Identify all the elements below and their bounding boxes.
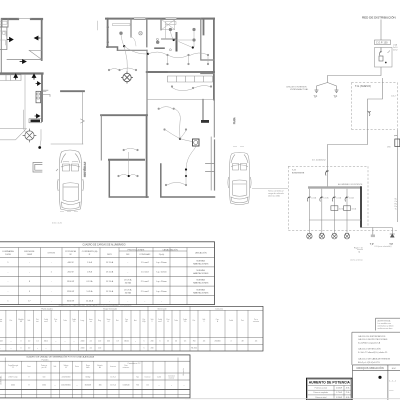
diff switch c4 bbox=[344, 206, 351, 211]
TP bottom horizontal bbox=[361, 227, 392, 229]
svg-text:h.p.r 20mm: h.p.r 20mm bbox=[156, 261, 167, 264]
meter box bbox=[375, 48, 393, 68]
svg-text:CORRIENTE (A): CORRIENTE (A) bbox=[82, 250, 98, 253]
porch post line bbox=[82, 92, 84, 144]
black hatch rect bbox=[201, 120, 209, 123]
outlet left wall 2 bbox=[107, 41, 109, 43]
circuit drop 4 bbox=[346, 189, 348, 234]
lamp c2 bbox=[319, 233, 324, 239]
svg-text:1x10A: 1x10A bbox=[336, 197, 342, 200]
arrow symbol 2 bbox=[35, 36, 41, 40]
circuit drop 2 bbox=[321, 189, 323, 234]
room5 outlets bbox=[123, 149, 125, 151]
svg-text:Generación: Generación bbox=[157, 308, 166, 310]
svg-text:Cable: Cable bbox=[158, 319, 162, 321]
svg-text:2.0: 2.0 bbox=[28, 348, 30, 350]
svg-text:CALCULO DE CAIDA DE TENSION: CALCULO DE CAIDA DE TENSION bbox=[358, 357, 391, 360]
TP branch split bbox=[317, 83, 337, 91]
svg-text:14.46 A: 14.46 A bbox=[86, 299, 94, 302]
svg-text:2X 25 A: 2X 25 A bbox=[124, 288, 132, 291]
wall mid horizontal A bbox=[0, 72, 43, 74]
bath walls bbox=[155, 47, 164, 49]
porch wall right of plan A bbox=[61, 90, 84, 92]
svg-text:AUMENTO DE POTENCIA: AUMENTO DE POTENCIA bbox=[309, 381, 351, 385]
seats bbox=[63, 161, 79, 171]
svg-text:electrico 16A: electrico 16A bbox=[268, 194, 280, 197]
feed line 1 bbox=[380, 20, 382, 41]
circuit drop 1 bbox=[308, 189, 310, 234]
svg-text:D.I. 2x16mm2: D.I. 2x16mm2 bbox=[312, 160, 326, 162]
wall top B bbox=[106, 18, 214, 20]
calculos box bbox=[352, 332, 400, 365]
svg-text:Cable: Cable bbox=[44, 319, 48, 321]
living outlets row1 bbox=[108, 69, 110, 71]
big room ceiling outlets bbox=[166, 54, 168, 56]
svg-text:pico W: pico W bbox=[42, 367, 47, 369]
wire r1 bbox=[121, 35, 124, 46]
svg-text:Dias: Dias bbox=[124, 365, 127, 367]
svg-text:ALUMBRADO EXISTENTE: ALUMBRADO EXISTENTE bbox=[338, 183, 363, 186]
svg-text:4: 4 bbox=[231, 341, 232, 343]
door arc room1 bbox=[131, 37, 136, 46]
lower-left block wall bbox=[101, 114, 147, 116]
svg-text:1x10A: 1x10A bbox=[349, 197, 355, 200]
corridor wall bbox=[118, 49, 148, 51]
svg-text:T-G: T-G bbox=[292, 170, 296, 172]
right wall x203 below bbox=[202, 100, 204, 122]
svg-text:4040: 4040 bbox=[11, 385, 15, 387]
svg-text:0.3: 0.3 bbox=[116, 341, 118, 343]
svg-text:0: 0 bbox=[21, 341, 22, 343]
lamp r3 bbox=[156, 41, 159, 44]
room6 outlets bbox=[117, 175, 119, 177]
svg-text:1X 16 A: 1X 16 A bbox=[106, 290, 114, 293]
right wall B bbox=[213, 19, 215, 100]
svg-text:Carga: Carga bbox=[0, 319, 2, 321]
junction room7b bbox=[185, 168, 187, 170]
car2 windshield bbox=[231, 155, 248, 167]
TP drop left bbox=[372, 228, 374, 235]
svg-text:25: 25 bbox=[167, 341, 169, 343]
svg-text:mm2: mm2 bbox=[44, 321, 48, 323]
table3 verticals bbox=[5, 358, 178, 398]
breaker on feed bbox=[368, 111, 371, 116]
svg-text:1X 16 A: 1X 16 A bbox=[106, 280, 114, 283]
svg-text:Grupo Generador: Grupo Generador bbox=[103, 308, 117, 310]
svg-text:Tipo: Tipo bbox=[136, 377, 139, 379]
svg-text:LUMINARIA: LUMINARIA bbox=[2, 250, 14, 253]
svg-text:48: 48 bbox=[242, 341, 244, 343]
svg-text:30x8x08: 30x8x08 bbox=[85, 385, 91, 387]
feed in dashed box bbox=[328, 78, 383, 187]
svg-text:4.1: 4.1 bbox=[36, 341, 38, 343]
svg-text:CANALIZACIÓN: CANALIZACIÓN bbox=[162, 248, 178, 251]
junction living bbox=[147, 53, 149, 55]
svg-text:verificarse en obra.: verificarse en obra. bbox=[378, 328, 394, 330]
svg-text:230: 230 bbox=[151, 341, 154, 343]
mid-left room wall h y159.5 bbox=[109, 159, 144, 161]
living hex lamp bbox=[121, 72, 133, 84]
wall right section v3 bbox=[160, 19, 162, 30]
rear box bbox=[63, 183, 79, 202]
meter line right bbox=[396, 130, 398, 223]
svg-text:4.50 x 2.20: 4.50 x 2.20 bbox=[52, 223, 63, 225]
svg-text:PROTECCIONES: PROTECCIONES bbox=[128, 249, 145, 251]
bottom room walls bbox=[109, 160, 148, 197]
svg-text:C.G.P. 100: C.G.P. 100 bbox=[376, 42, 388, 45]
wall right A bbox=[41, 19, 43, 60]
svg-text:W: W bbox=[70, 254, 72, 256]
porch mark bbox=[81, 119, 85, 123]
svg-text:166: 166 bbox=[99, 385, 102, 387]
svg-text:ENCHUFE: ENCHUFE bbox=[24, 251, 35, 253]
arrow symbol 4 kitchen bbox=[14, 74, 18, 79]
junction r1 bbox=[123, 45, 125, 47]
circuit drop 3 bbox=[333, 189, 335, 234]
svg-text:2(a,b): 2(a,b) bbox=[159, 254, 165, 256]
svg-text:CALCULOS JUSTIFICATIVOS: CALCULOS JUSTIFICATIVOS bbox=[358, 335, 386, 338]
svg-text:Reg.: Reg. bbox=[98, 320, 102, 322]
svg-text:2.5 mm2: 2.5 mm2 bbox=[141, 281, 150, 283]
svg-text:Serie: Serie bbox=[107, 319, 111, 321]
car2 rear window bbox=[231, 197, 248, 203]
meter dark block bbox=[31, 120, 41, 123]
svg-text:8: 8 bbox=[29, 385, 30, 387]
lamp c1 bbox=[307, 233, 312, 239]
svg-text:Potencia actual: Potencia actual bbox=[315, 387, 328, 390]
wall jog bottom-left room bbox=[107, 47, 118, 50]
svg-text:R pri × D: R pri × D bbox=[354, 247, 363, 250]
junction dot garage bbox=[38, 146, 41, 149]
bottom thin line room A bbox=[7, 59, 42, 61]
wires big room bbox=[148, 52, 208, 63]
TP symbol right bbox=[335, 90, 339, 92]
svg-text:Modulo: Modulo bbox=[18, 319, 23, 321]
svg-text:5: 5 bbox=[144, 348, 145, 350]
svg-text:4.60kW: 4.60kW bbox=[336, 388, 342, 390]
svg-text:NUEVAS: NUEVAS bbox=[196, 279, 205, 282]
wires lower big room bbox=[160, 107, 192, 142]
svg-text:0.5: 0.5 bbox=[184, 341, 186, 343]
svg-text:5: 5 bbox=[144, 341, 145, 343]
lamp bath2 bbox=[192, 28, 195, 31]
dashed box TG NUEVO bbox=[352, 83, 398, 130]
top-right corner wall bbox=[202, 19, 214, 35]
svg-text:2.0: 2.0 bbox=[28, 341, 30, 343]
svg-text:6: 6 bbox=[160, 341, 161, 343]
svg-text:30mA: 30mA bbox=[351, 208, 356, 211]
main junction hub bbox=[123, 45, 125, 47]
lower rooms outlets bbox=[158, 108, 160, 110]
arrow symbol 5 kitchen right bbox=[32, 74, 36, 79]
svg-text:CALCULO DE SECCIÓN: CALCULO DE SECCIÓN bbox=[358, 347, 381, 350]
table1 frame bbox=[0, 242, 215, 305]
wire garage horizontal 1 bbox=[0, 127, 26, 129]
svg-text:3040 W: 3040 W bbox=[67, 300, 74, 302]
svg-text:(toma a tierra): (toma a tierra) bbox=[351, 259, 363, 262]
kitchen cabinets bbox=[0, 75, 21, 81]
svg-text:h.p.r 20mm: h.p.r 20mm bbox=[156, 280, 167, 283]
svg-text:2x6+T: 2x6+T bbox=[391, 96, 397, 98]
svg-text:1300 W: 1300 W bbox=[67, 281, 74, 283]
svg-text:EXISTENTE: EXISTENTE bbox=[292, 172, 305, 174]
svg-text:230/400: 230/400 bbox=[214, 341, 220, 343]
outlet left wall 1 bbox=[107, 26, 109, 28]
wire kitchen vertical bbox=[24, 75, 26, 128]
svg-text:In=C(P)/(U cosφ)=16.5 A: In=C(P)/(U cosφ)=16.5 A bbox=[358, 342, 381, 345]
svg-text:1500: 1500 bbox=[42, 385, 46, 387]
notes box bbox=[376, 318, 400, 330]
wire to hexagon bbox=[23, 127, 26, 133]
svg-text:11.74-4: 11.74-4 bbox=[110, 377, 115, 379]
svg-text:CIRCUITO INTERIOR: CIRCUITO INTERIOR bbox=[286, 87, 307, 89]
svg-text:GENERAC.: GENERAC. bbox=[0, 375, 3, 385]
svg-text:NUEVAS: NUEVAS bbox=[196, 260, 205, 263]
svg-text:RED DE DISTRIBUCIÓN: RED DE DISTRIBUCIÓN bbox=[362, 15, 396, 20]
svg-text:h.p.r 20mm: h.p.r 20mm bbox=[156, 271, 167, 274]
svg-text:Long.: Long. bbox=[81, 320, 86, 322]
window marks living wall bbox=[168, 71, 212, 73]
svg-text:Tu: Tu bbox=[395, 209, 397, 211]
outlet under bath wall bbox=[169, 49, 171, 51]
car2 wheels bbox=[228, 177, 251, 188]
lamp bath3 bbox=[192, 38, 195, 41]
svg-text:Carga/Energía: Carga/Energía bbox=[8, 365, 18, 367]
svg-text:Potencia ampliada: Potencia ampliada bbox=[313, 391, 328, 394]
wheels bbox=[57, 179, 83, 191]
svg-text:Conexion: Conexion bbox=[168, 375, 175, 377]
svg-text:1.5 mm2: 1.5 mm2 bbox=[141, 272, 150, 274]
svg-text:5.45 A: 5.45 A bbox=[87, 290, 94, 293]
svg-text:100W: 100W bbox=[27, 254, 32, 256]
CGP label box bbox=[375, 40, 391, 45]
svg-text:Regu: Regu bbox=[86, 365, 90, 367]
croquis dot bbox=[378, 376, 381, 379]
car2 dim text bbox=[233, 146, 244, 148]
svg-text:Inversor: Inversor bbox=[145, 377, 151, 379]
table2 data row1 bbox=[0, 341, 257, 343]
svg-text:0: 0 bbox=[21, 348, 22, 350]
table3 data row bbox=[11, 385, 185, 387]
wall top A left bbox=[2, 18, 18, 20]
thin line y99.5 bbox=[147, 99, 214, 101]
svg-text:T,P: T,P bbox=[370, 242, 374, 246]
svg-text:Tubo: Tubo bbox=[174, 320, 178, 322]
svg-text:HABITACIONES: HABITACIONES bbox=[193, 263, 209, 266]
svg-text:HABITACIONES: HABITACIONES bbox=[193, 291, 209, 294]
svg-text:mm2: mm2 bbox=[158, 321, 162, 323]
junction bath bbox=[173, 39, 175, 41]
svg-text:VIVIENDA ACTUAL: VIVIENDA ACTUAL bbox=[290, 88, 309, 91]
table2 data row2 bbox=[0, 348, 197, 350]
long v wall x146.5 bbox=[146, 115, 148, 197]
living room wall h bbox=[147, 71, 214, 73]
svg-text:4.6: 4.6 bbox=[255, 341, 257, 343]
svg-text:5.75kW: 5.75kW bbox=[336, 392, 342, 394]
svg-text:8 Ω (max admisible): 8 Ω (max admisible) bbox=[375, 246, 392, 248]
svg-text:NUEVAS: NUEVAS bbox=[196, 288, 205, 291]
svg-text:NT-300: NT-300 bbox=[191, 348, 197, 350]
svg-text:Paneles: Paneles bbox=[42, 359, 49, 361]
small room top-left walls bbox=[0, 19, 8, 27]
table2 section row bbox=[0, 310, 263, 344]
svg-text:S: 2x6+T.T.x6mm2(Cu) s/tubo 25: S: 2x6+T.T.x6mm2(Cu) s/tubo 25 bbox=[358, 351, 388, 354]
marks below car bbox=[60, 211, 78, 213]
closet top-left bbox=[0, 21, 7, 24]
windshield bbox=[61, 154, 80, 168]
breaker c4 bbox=[345, 197, 348, 202]
aumento rows bbox=[313, 387, 350, 399]
svg-text:Cable: Cable bbox=[157, 377, 161, 379]
svg-text:200 W: 200 W bbox=[67, 272, 73, 274]
svg-text:2/3/47 Comp: 2/3/47 Comp bbox=[8, 377, 17, 379]
wires bath bbox=[170, 31, 194, 47]
wall right kitchen bbox=[41, 74, 43, 122]
svg-text:1280 W: 1280 W bbox=[67, 291, 74, 293]
svg-text:2400: 2400 bbox=[81, 348, 85, 350]
table2 frame bbox=[0, 306, 263, 351]
lower-left v wall bbox=[100, 115, 102, 160]
svg-text:CUADRO DE CARGAS DE ALUMBRADO: CUADRO DE CARGAS DE ALUMBRADO bbox=[82, 244, 125, 247]
lamp c4 bbox=[344, 233, 349, 239]
svg-text:20: 20 bbox=[175, 341, 177, 343]
svg-text:Ubicación: Ubicación bbox=[183, 368, 185, 376]
svg-text:220/230/400: 220/230/400 bbox=[61, 385, 70, 387]
left outer wall bbox=[0, 19, 2, 74]
svg-text:1x10A: 1x10A bbox=[323, 197, 329, 200]
table3 frame bbox=[0, 355, 190, 398]
svg-text:inversor: inversor bbox=[169, 378, 175, 380]
wires room6 bbox=[120, 161, 137, 176]
lamp c3 bbox=[332, 233, 337, 239]
table3 horizontals bbox=[0, 361, 190, 394]
interior wall x6.9 bbox=[0, 27, 7, 50]
C-shaped structure bbox=[33, 163, 42, 173]
svg-text:Caida: Caida bbox=[72, 319, 76, 321]
svg-text:500: 500 bbox=[43, 377, 46, 379]
wires room5 bbox=[125, 148, 137, 159]
svg-text:Inversor: Inversor bbox=[110, 366, 116, 368]
arrow symbol 7 near meter bbox=[35, 114, 40, 118]
svg-text:CUADRO DE CARGAS DE GENERACIÓN: CUADRO DE CARGAS DE GENERACIÓN FOTOVOLTA… bbox=[59, 303, 132, 306]
junction room6 bbox=[128, 175, 130, 177]
svg-text:440 W: 440 W bbox=[67, 262, 73, 264]
table1 grid horizontals bbox=[0, 248, 215, 296]
svg-text:h.p.r 20mm: h.p.r 20mm bbox=[156, 290, 167, 293]
svg-text:220/230/400: 220/230/400 bbox=[62, 377, 71, 379]
garage lamp hexagon bbox=[23, 129, 36, 142]
svg-text:100W: 100W bbox=[5, 254, 10, 256]
svg-text:Cap.: Cap. bbox=[125, 319, 129, 321]
svg-text:T-G (NUEVO): T-G (NUEVO) bbox=[355, 84, 371, 88]
svg-text:POTENCIA: POTENCIA bbox=[65, 250, 76, 253]
svg-text:T.P: T.P bbox=[334, 95, 338, 99]
svg-text:2400: 2400 bbox=[81, 341, 85, 343]
wall top A right bbox=[31, 18, 42, 20]
svg-text:kWp: kWp bbox=[142, 321, 145, 323]
meter symbols right bbox=[395, 139, 400, 147]
svg-text:CALCULO DE PROTECCIONES: CALCULO DE PROTECCIONES bbox=[358, 338, 388, 341]
svg-text:lador: lador bbox=[86, 367, 90, 369]
TP symbol left bbox=[315, 90, 319, 92]
svg-text:3.228x40: 3.228x40 bbox=[123, 385, 130, 387]
svg-text:Consumo a CC: Consumo a CC bbox=[128, 363, 142, 365]
svg-text:Inver: Inver bbox=[89, 319, 93, 321]
junction x180 bbox=[179, 138, 181, 140]
car body bbox=[59, 150, 81, 211]
svg-text:30 MA: 30 MA bbox=[125, 282, 132, 285]
diff switch c3 bbox=[331, 206, 338, 211]
dashed box TG existente bbox=[288, 166, 397, 230]
svg-text:750: 750 bbox=[193, 341, 196, 343]
wall left B bbox=[107, 19, 109, 47]
fixture outside wall bbox=[43, 90, 50, 96]
svg-text:CUADRO DE UNIDAD DE GENERACIÓN: CUADRO DE UNIDAD DE GENERACIÓN FOTOVOLTA… bbox=[26, 356, 94, 359]
ceiling lamp r1 bbox=[119, 32, 122, 35]
lamp bath1 bbox=[169, 28, 172, 31]
svg-text:T.P: T.P bbox=[314, 95, 318, 99]
svg-text:11.74-4: 11.74-4 bbox=[110, 385, 116, 387]
porch bottom line bbox=[51, 143, 83, 145]
svg-text:0.9 A: 0.9 A bbox=[87, 271, 92, 274]
svg-text:0—0—4: 0—0—4 bbox=[389, 381, 396, 383]
svg-text:4.6: 4.6 bbox=[203, 341, 205, 343]
lamp hall bbox=[139, 32, 142, 35]
wardrobe row bbox=[168, 76, 213, 82]
breaker c1 bbox=[307, 197, 310, 202]
svg-text:DISY: DISY bbox=[107, 254, 112, 256]
terrace walls right bbox=[201, 19, 214, 74]
svg-text:ESC: ESC bbox=[392, 368, 397, 370]
svg-text:2.5 mm2: 2.5 mm2 bbox=[141, 291, 150, 293]
junction bath2 bbox=[192, 46, 194, 48]
svg-text:OTROS: OTROS bbox=[48, 252, 56, 254]
connector line bbox=[309, 219, 361, 221]
bottom right wall piece bbox=[210, 137, 212, 190]
breaker c3 bbox=[332, 197, 335, 202]
TP drop right bbox=[391, 228, 393, 235]
svg-text:NUEVAS: NUEVAS bbox=[196, 269, 205, 272]
wires under wardrobe bbox=[172, 86, 210, 91]
svg-text:8: 8 bbox=[29, 377, 30, 379]
svg-text:Serie: Serie bbox=[75, 366, 79, 368]
car2 body bbox=[230, 152, 250, 204]
svg-text:6.13 A: 6.13 A bbox=[87, 280, 94, 283]
armario with X bbox=[162, 20, 175, 30]
svg-text:COND/HAC: COND/HAC bbox=[139, 253, 151, 256]
interior wall v1 bbox=[130, 19, 132, 37]
mirror bbox=[56, 169, 85, 171]
svg-text:1X 10 A: 1X 10 A bbox=[106, 271, 114, 274]
wall stubs left bbox=[206, 164, 215, 172]
breaker c2 bbox=[320, 197, 323, 202]
svg-text:4.1: 4.1 bbox=[90, 341, 92, 343]
svg-text:1X 10 A: 1X 10 A bbox=[106, 261, 114, 264]
table1 grid verticals bbox=[18, 248, 187, 305]
hatched wall segment bbox=[176, 33, 178, 51]
window lintel line bbox=[18, 18, 31, 20]
svg-text:ΔV=2·ρ·L·I/(S·V)=0.57%: ΔV=2·ρ·L·I/(S·V)=0.57% bbox=[358, 361, 380, 364]
svg-text:2.0 A: 2.0 A bbox=[87, 261, 92, 264]
outlet near bath bbox=[156, 38, 158, 40]
living room wall v bbox=[146, 50, 148, 115]
svg-text:kWh: kWh bbox=[387, 147, 391, 149]
window marks top wall bbox=[135, 18, 177, 20]
svg-text:230: 230 bbox=[151, 348, 154, 350]
svg-text:Planta Cuadro: Planta Cuadro bbox=[41, 307, 53, 310]
room7 outlets bbox=[165, 184, 167, 186]
svg-text:4.6: 4.6 bbox=[146, 385, 148, 387]
